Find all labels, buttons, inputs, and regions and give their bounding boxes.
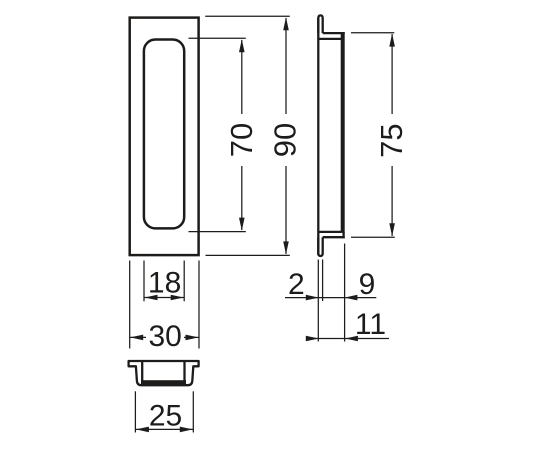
dimension 75 leader top	[351, 32, 394, 34]
svg-text:9: 9	[359, 268, 376, 301]
dimension 70 arrow up	[239, 39, 245, 52]
dimension 18 extension line left	[143, 261, 145, 302]
side view bottom web lower line	[323, 236, 345, 238]
dimension 2 extension line left	[317, 260, 319, 342]
dimension 9 extension line right	[344, 244, 346, 342]
dimension 90 leader bottom	[206, 254, 290, 256]
svg-text:18: 18	[148, 267, 181, 300]
dimension 90 line lower segment	[285, 166, 287, 254]
dimension 90 leader top	[205, 15, 290, 17]
dimension 25 arrow right	[180, 427, 193, 433]
dimension 90 arrow up	[283, 17, 289, 30]
dimension 11 arrow pointing left	[345, 336, 358, 342]
dimension 90 arrow down	[283, 241, 289, 254]
dimension 30 extension line left	[129, 261, 131, 349]
dimension 18 line	[144, 297, 184, 299]
dimension 9 arrow pointing left	[344, 295, 357, 301]
dimension 2 arrow pointing right	[306, 295, 319, 301]
dimension 30 line right segment	[184, 336, 199, 338]
dimension 2 extension line right	[322, 260, 324, 302]
dimension 90 line upper segment	[285, 18, 287, 114]
dimension 70 arrow down	[239, 218, 245, 231]
dimension 2 and 9 shared line	[285, 297, 376, 299]
dimension 75 line lower segment	[391, 166, 393, 236]
dimension 25 arrow left	[136, 427, 149, 433]
section view cavity wall right	[183, 362, 185, 382]
svg-text:30: 30	[149, 320, 182, 353]
dimension 25 extension line right	[192, 391, 194, 432]
dimension 70 line upper segment	[241, 40, 243, 114]
svg-text:25: 25	[149, 399, 182, 432]
front view recess rounded outline	[144, 40, 184, 229]
side view top lip	[318, 15, 322, 33]
side view bottom web upper line	[318, 231, 341, 233]
side view top web lower line	[318, 38, 341, 40]
dimension 18 extension line right	[183, 261, 185, 302]
dimension 75 arrow up	[389, 34, 395, 47]
dimension 70 line lower segment	[241, 166, 243, 230]
dimension 75 line upper segment	[391, 34, 393, 114]
side view face plate edge	[341, 32, 345, 233]
dimension 25 line	[135, 428, 193, 430]
dimension 30 arrow right	[186, 335, 199, 341]
section view cavity wall left	[141, 362, 143, 382]
dimension 18 arrow right	[171, 295, 184, 301]
dimension 11 arrow pointing right	[306, 336, 319, 342]
dimension 70 leader top	[189, 37, 246, 39]
dimension 30 line left segment	[130, 336, 146, 338]
front view outer plate outline	[130, 18, 199, 256]
dimension 75 leader bottom	[351, 236, 395, 238]
section view recess floor	[141, 380, 186, 384]
svg-text:2: 2	[288, 268, 305, 301]
side view top web upper line	[323, 32, 345, 34]
svg-text:70: 70	[224, 123, 259, 157]
dimension 25 extension line left	[134, 391, 136, 432]
svg-text:75: 75	[374, 123, 409, 157]
dimension 75 arrow down	[389, 223, 395, 236]
svg-text:11: 11	[355, 308, 386, 341]
dimension 18 arrow left	[145, 295, 158, 301]
side view bottom lip	[318, 237, 322, 256]
dimension 11 line	[307, 338, 390, 340]
dimension 30 arrow left	[130, 335, 143, 341]
side view back wall and lip outer edge	[317, 18, 319, 255]
section view outer outline	[129, 361, 199, 385]
side view face plate lower stub	[342, 232, 344, 238]
svg-text:90: 90	[268, 123, 303, 157]
dimension 70 leader bottom	[189, 231, 246, 233]
dimension 30 extension line right	[198, 261, 200, 349]
